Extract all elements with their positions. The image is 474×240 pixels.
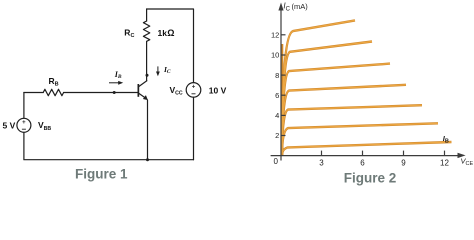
svg-text:8: 8 bbox=[275, 71, 279, 80]
svg-text:0: 0 bbox=[274, 157, 279, 166]
svg-text:9: 9 bbox=[401, 158, 406, 167]
svg-text:1k: 1k bbox=[158, 28, 168, 38]
svg-text:+: + bbox=[22, 120, 26, 126]
svg-text:(mA): (mA) bbox=[292, 2, 309, 11]
svg-text:2: 2 bbox=[275, 131, 279, 140]
svg-text:12: 12 bbox=[440, 158, 449, 167]
svg-text:12: 12 bbox=[271, 31, 279, 40]
svg-text:3: 3 bbox=[319, 158, 324, 167]
svg-text:Ω: Ω bbox=[167, 28, 174, 38]
svg-text:6: 6 bbox=[360, 158, 365, 167]
svg-text:4: 4 bbox=[275, 111, 279, 120]
svg-text:+: + bbox=[192, 85, 196, 91]
svg-text:Figure 2: Figure 2 bbox=[344, 171, 397, 186]
svg-text:6: 6 bbox=[275, 91, 279, 100]
svg-text:10: 10 bbox=[271, 51, 279, 60]
svg-text:10 V: 10 V bbox=[209, 85, 227, 95]
svg-text:Figure 1: Figure 1 bbox=[75, 167, 128, 182]
svg-text:5 V: 5 V bbox=[3, 120, 16, 130]
